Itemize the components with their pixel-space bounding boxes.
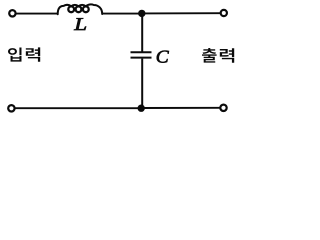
terminal: input bottom-left [8,105,14,111]
junction: top node [138,10,145,17]
terminal: output bottom-right [220,105,226,111]
terminal: output top-right [221,10,227,16]
capacitor C [131,13,152,108]
label 출력 (output) [202,48,234,63]
inductor L [58,4,102,14]
label L [74,18,86,30]
wire: top left segment [16,13,58,15]
wire: top right segment [142,12,220,14]
terminal: input top-left [9,10,15,16]
wire: bottom right segment [141,107,220,109]
label C [157,51,169,63]
wire: bottom left segment [15,107,141,109]
wire: top middle segment [102,13,142,15]
label 입력 (input) [8,47,40,61]
junction: bottom node [138,105,145,112]
